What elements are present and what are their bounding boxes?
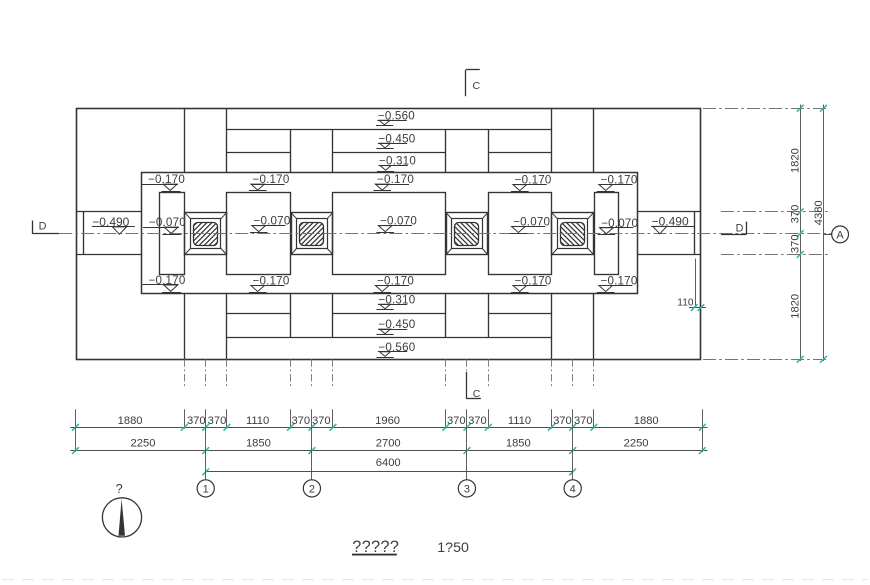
right dim line 1 xyxy=(800,105,802,362)
section mark C (bottom) xyxy=(466,372,481,400)
faint page boundary xyxy=(2,579,868,581)
wall strip grid1 edges (bottom band) xyxy=(185,294,227,360)
dimension ticks row 3 xyxy=(202,469,576,476)
svg-text:4380: 4380 xyxy=(813,200,825,225)
dimension 110 (arm offset) xyxy=(677,259,706,312)
svg-text:370: 370 xyxy=(447,415,466,427)
grid line verticals to bubbles xyxy=(206,427,573,480)
grid bubble A xyxy=(832,226,849,243)
dim extension lines between rows xyxy=(76,427,703,452)
grid bubble 4 xyxy=(564,480,581,497)
svg-text:370: 370 xyxy=(574,415,593,427)
elevation -0.170 top row bay3-4 xyxy=(511,174,552,192)
right dim line 2 xyxy=(823,105,825,362)
wall strip grid2 edges (bottom band) xyxy=(291,294,333,338)
elevation -0.490 left arm xyxy=(92,215,135,234)
dimension texts row 2 xyxy=(131,438,649,450)
elevation -0.490 right arm xyxy=(651,215,694,234)
svg-text:370: 370 xyxy=(187,415,206,427)
svg-text:1820: 1820 xyxy=(790,294,802,319)
elevation -0.070 center bay xyxy=(376,215,417,233)
dimension texts row 1 xyxy=(118,415,659,427)
north arrow xyxy=(102,482,141,537)
svg-text:370: 370 xyxy=(312,415,331,427)
section mark D (left) xyxy=(32,221,59,234)
svg-text:2: 2 xyxy=(309,483,315,495)
svg-text:1850: 1850 xyxy=(506,438,531,450)
elevation -0.310 top xyxy=(377,155,416,172)
elevation -0.170 bottom row bay3-4 xyxy=(511,275,552,293)
right arm strip at -0.490 xyxy=(637,212,701,255)
left arm strip at -0.490 xyxy=(76,212,141,255)
elevation -0.560 top xyxy=(376,109,415,125)
right dim text 1820 lower xyxy=(790,294,802,319)
svg-text:?????: ????? xyxy=(352,538,399,556)
scale text 1?50 xyxy=(437,540,469,556)
right dim ticks line 2 xyxy=(820,105,827,363)
right dim text 370 lower xyxy=(790,234,802,253)
svg-text:C: C xyxy=(473,388,481,400)
grillage outline at -0.310 xyxy=(142,173,638,294)
svg-text:D: D xyxy=(39,221,47,233)
dimension line row 3 (6400) xyxy=(206,471,573,473)
svg-text:370: 370 xyxy=(790,234,802,253)
svg-text:A: A xyxy=(836,229,844,241)
right extension dash-dot bottom edge xyxy=(703,359,828,361)
elevation -0.170 top row center xyxy=(373,173,414,190)
bay slab right end xyxy=(595,193,619,275)
svg-text:1880: 1880 xyxy=(118,415,143,427)
dimension ticks row 1 xyxy=(72,424,706,431)
section mark C (top) xyxy=(466,70,481,97)
dimension line row 2 (bottom) xyxy=(70,450,707,452)
footing step lines at -0.450 (top) xyxy=(227,152,552,154)
right dim ticks line 1 xyxy=(797,105,804,363)
wall strip grid1 edges (top band) xyxy=(185,108,227,173)
elevation -0.170 bottom row right end xyxy=(597,275,638,293)
svg-text:2250: 2250 xyxy=(131,438,156,450)
svg-text:110: 110 xyxy=(677,297,694,308)
elevation -0.170 top row right end xyxy=(597,174,638,192)
right dim text 1820 upper xyxy=(790,148,802,173)
elevation -0.070 bay3-4 xyxy=(510,216,551,234)
elevation -0.070 right end bay xyxy=(598,217,639,235)
foundation outer edge xyxy=(77,109,701,360)
column footing C3 (hatched pier) xyxy=(367,204,567,264)
footing step lines at -0.450 (bottom) xyxy=(227,313,552,315)
svg-text:1820: 1820 xyxy=(790,148,802,173)
footing step line at -0.560 (top) xyxy=(227,129,552,131)
grid bubble A leader xyxy=(824,234,832,236)
svg-text:2250: 2250 xyxy=(624,438,649,450)
elevation -0.560 bottom xyxy=(376,341,415,358)
svg-text:370: 370 xyxy=(468,415,487,427)
right dim text 4380 xyxy=(813,200,825,225)
svg-text:370: 370 xyxy=(208,415,227,427)
elevation -0.310 bottom xyxy=(376,293,415,309)
right extension dash-dot arm bottom xyxy=(721,254,828,256)
svg-text:370: 370 xyxy=(291,415,310,427)
svg-text:1850: 1850 xyxy=(246,438,271,450)
grid extension dash-dot lines below plan xyxy=(185,359,594,388)
elevation -0.070 left end bay xyxy=(143,216,186,234)
grid bubble 2 xyxy=(303,480,320,497)
footing step line at -0.560 (bottom) xyxy=(227,337,552,339)
dimension line row 1 (bottom) xyxy=(70,427,707,429)
bay slab left end xyxy=(160,193,185,275)
svg-text:1: 1 xyxy=(203,483,209,495)
svg-text:1?50: 1?50 xyxy=(437,540,469,556)
dim extension lines above row 1 xyxy=(76,409,703,429)
svg-text:1880: 1880 xyxy=(634,415,659,427)
wall strip grid4 edges (bottom band) xyxy=(552,294,594,360)
bay slab grid1-2 xyxy=(227,193,291,275)
wall strip grid2 edges (top band) xyxy=(291,129,333,173)
elevation -0.170 bottom row left end xyxy=(143,274,186,292)
dimension ticks row 2 xyxy=(72,447,706,454)
svg-text:1960: 1960 xyxy=(375,415,400,427)
right extension dash-dot arm top xyxy=(721,211,828,213)
svg-text:1110: 1110 xyxy=(246,415,269,427)
svg-text:D: D xyxy=(736,223,744,235)
grid A centerline (dash-dot) xyxy=(59,233,831,235)
right dim text 370 upper xyxy=(790,205,802,224)
wall strip grid3 edges (bottom band) xyxy=(446,294,489,338)
wall strip grid4 edges (top band) xyxy=(552,108,594,173)
dimension text 6400 xyxy=(376,457,401,469)
grid bubble 1 xyxy=(197,480,214,497)
elevation -0.070 bay1-2 xyxy=(250,215,291,233)
column footing C1 (hatched pier) xyxy=(106,204,306,264)
right extension dash-dot top edge xyxy=(703,108,828,110)
title underline xyxy=(352,554,397,556)
column footing C2 (hatched pier) xyxy=(212,204,412,264)
elevation -0.170 bottom row center xyxy=(373,275,414,293)
svg-text:1110: 1110 xyxy=(508,415,531,427)
section mark D (right) xyxy=(721,222,747,235)
elevation -0.170 bottom row bay1-2 xyxy=(249,275,290,293)
svg-text:3: 3 xyxy=(464,483,470,495)
svg-text:6400: 6400 xyxy=(376,457,401,469)
elevation -0.450 bottom xyxy=(376,318,415,334)
bay slab grid3-4 xyxy=(489,193,552,275)
drawing title xyxy=(352,538,399,556)
svg-text:C: C xyxy=(473,80,481,92)
svg-text:2700: 2700 xyxy=(376,438,401,450)
svg-text:370: 370 xyxy=(790,205,802,224)
svg-text:?: ? xyxy=(116,482,123,496)
svg-text:370: 370 xyxy=(553,415,572,427)
elevation -0.170 top row left end xyxy=(142,173,185,191)
svg-text:4: 4 xyxy=(570,483,576,495)
wall strip grid3 edges (top band) xyxy=(446,129,489,173)
elevation -0.170 top row bay1-2 xyxy=(249,173,290,190)
bay slab grid2-3 xyxy=(333,193,446,275)
elevation -0.450 top xyxy=(376,132,415,148)
column footing C4 (hatched pier) xyxy=(473,204,673,264)
grid bubble 3 xyxy=(458,480,475,497)
